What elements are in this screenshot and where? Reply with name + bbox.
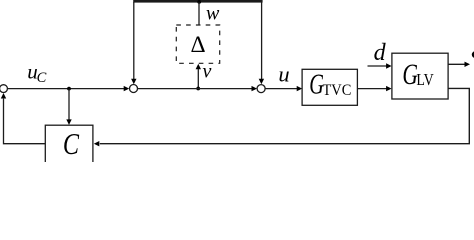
node: junction dot branching to controller C xyxy=(67,87,71,91)
summing junction S2 xyxy=(257,85,265,93)
wire: measured output arrow from G_LV to right edge xyxy=(448,62,470,67)
svg-text:d: d xyxy=(374,40,387,66)
wire: d disturbance line into G_LV xyxy=(368,63,392,68)
svg-text:v: v xyxy=(203,61,212,83)
wire: v line from main line up into Delta xyxy=(196,64,201,89)
wire: u_C line from S0 to S1 xyxy=(7,86,129,91)
wire: w line from top bar down to Delta block xyxy=(198,2,200,25)
block G_TVC xyxy=(302,69,357,105)
svg-text:TVC: TVC xyxy=(323,82,352,100)
label: bold output symbol clipped at right edge xyxy=(472,51,474,58)
wire: C output left and up into S0 xyxy=(1,93,46,144)
wire: top bar distributing w left and right xyxy=(133,0,262,3)
block C (controller), bottom clipped by image edge xyxy=(45,125,93,170)
wire: feedback tap from G_LV right side down and across bottom into C xyxy=(94,88,470,146)
svg-text:w: w xyxy=(206,2,220,24)
wire: left drop from top bar into summing junction S1 xyxy=(131,2,136,84)
label w xyxy=(206,2,220,24)
svg-text:C: C xyxy=(37,70,47,86)
wire: right drop from top bar into summing junction S2 xyxy=(259,2,264,84)
svg-text:u: u xyxy=(278,61,289,86)
wire: G_TVC output into G_LV xyxy=(357,86,391,91)
node: junction dot tapping v from main line xyxy=(196,87,200,91)
block G_LV xyxy=(392,53,448,99)
label u xyxy=(278,61,289,86)
svg-text:Δ: Δ xyxy=(191,32,206,58)
label d xyxy=(374,40,387,66)
node: junction dot on top bar feeding w xyxy=(197,0,201,4)
wire: main line from S1 to S2 xyxy=(138,86,258,91)
wire: u line from S2 into G_TVC xyxy=(265,86,302,91)
summing junction S0 (left edge) xyxy=(0,85,7,93)
svg-text:LV: LV xyxy=(416,71,434,90)
svg-text:C: C xyxy=(63,127,80,162)
wire: branch down from main line into controller C xyxy=(66,89,71,125)
uncertainty block Delta (dashed) xyxy=(176,25,219,63)
label u_C xyxy=(27,60,46,86)
summing junction S1 xyxy=(130,85,138,93)
label v xyxy=(203,61,212,83)
